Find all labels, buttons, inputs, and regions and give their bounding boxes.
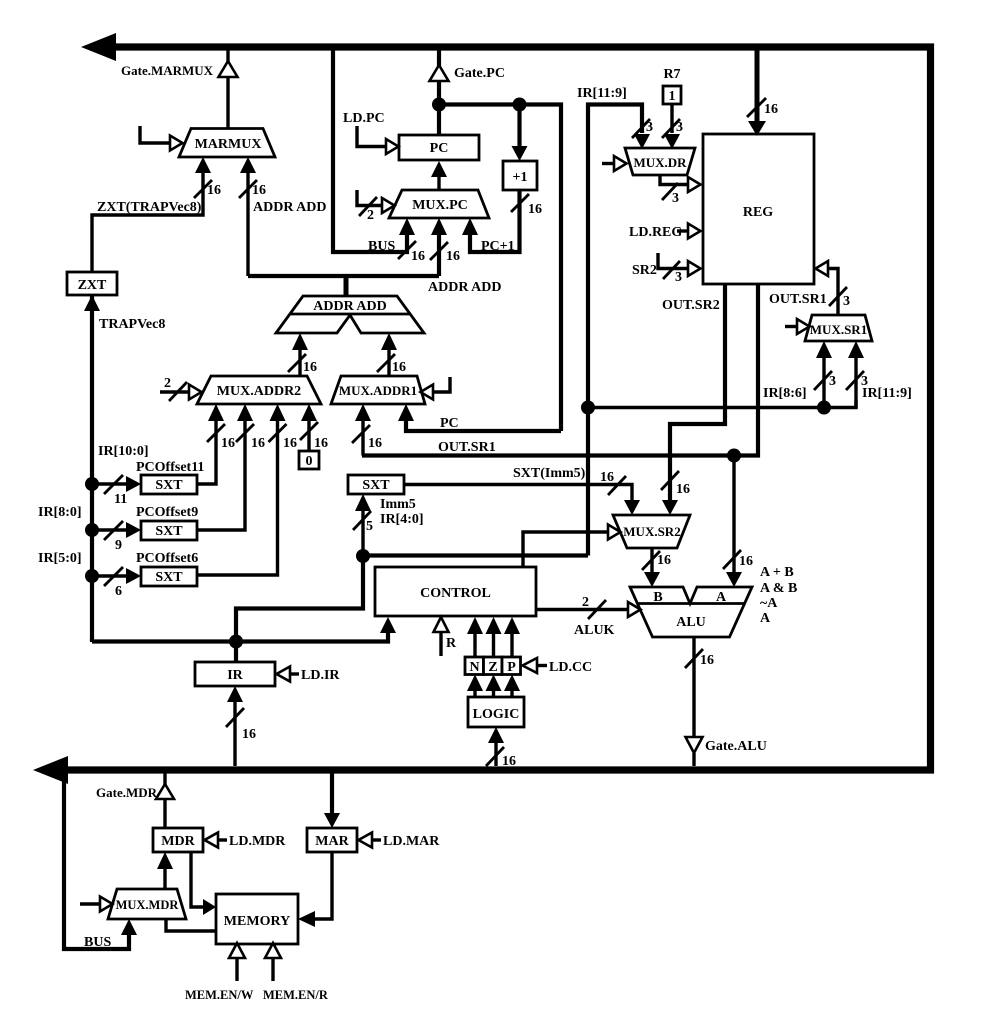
wire MARMUX select elbow bbox=[140, 126, 170, 143]
node junction at PC top bbox=[432, 98, 446, 112]
svg-text:IR[8:0]: IR[8:0] bbox=[38, 505, 82, 520]
svg-text:3: 3 bbox=[672, 191, 679, 206]
register ZXT bbox=[67, 272, 117, 295]
svg-text:LD.MDR: LD.MDR bbox=[229, 834, 286, 849]
wire SXT11 output into MUX.ADDR2 in1 bbox=[197, 420, 216, 484]
flag register P bbox=[502, 657, 521, 675]
wire IR fanout left vertical bbox=[90, 295, 94, 642]
input triangle MEM.EN/R bbox=[265, 943, 281, 958]
wire OUT.SR1 into ALU A bbox=[727, 449, 741, 463]
wire MUX.DR output into REG DR port bbox=[660, 175, 688, 185]
wire into +1 bbox=[517, 105, 521, 147]
svg-text:MUX.SR1: MUX.SR1 bbox=[810, 322, 867, 337]
wire Z into CONTROL bbox=[492, 633, 495, 657]
wire LOGIC to N bbox=[473, 691, 476, 697]
svg-text:LD.MAR: LD.MAR bbox=[383, 834, 440, 849]
svg-text:16: 16 bbox=[411, 249, 425, 264]
svg-text:3: 3 bbox=[646, 120, 653, 135]
svg-text:16: 16 bbox=[392, 360, 406, 375]
register SXT PCOffset9 bbox=[141, 521, 197, 540]
svg-text:LD.PC: LD.PC bbox=[343, 111, 385, 126]
svg-text:PCOffset9: PCOffset9 bbox=[136, 505, 198, 520]
svg-text:BUS: BUS bbox=[84, 935, 111, 950]
wire into SXT6 bbox=[92, 574, 126, 577]
svg-text:16: 16 bbox=[600, 470, 614, 485]
svg-text:16: 16 bbox=[242, 727, 256, 742]
wire SXT6 output into MUX.ADDR2 in3 bbox=[197, 420, 278, 575]
wire bus into IR bbox=[233, 702, 236, 766]
register SXT PCOffset6 bbox=[141, 567, 197, 586]
wire into SXT11 bbox=[92, 482, 126, 485]
svg-text:SXT: SXT bbox=[155, 570, 183, 585]
wire MUX.ADDR2 output into ADDR ADD bbox=[298, 349, 301, 376]
mux MUX.ADDR2 bbox=[197, 376, 321, 404]
svg-text:SXT(Imm5): SXT(Imm5) bbox=[513, 466, 586, 481]
svg-text:SXT: SXT bbox=[155, 478, 183, 493]
control unit CONTROL bbox=[375, 567, 536, 616]
wire MAR into MEMORY bbox=[315, 852, 332, 919]
svg-text:16: 16 bbox=[207, 183, 221, 198]
wire ALUK from CONTROL into ALU bbox=[536, 608, 628, 611]
select triangle MUX.ADDR1 bbox=[421, 385, 434, 400]
svg-text:OUT.SR1: OUT.SR1 bbox=[438, 440, 496, 455]
svg-text:11: 11 bbox=[114, 492, 127, 507]
svg-text:B: B bbox=[653, 590, 662, 605]
gate Gate.MARMUX triangle bbox=[219, 61, 238, 77]
wire MUX.ADDR1 output into ADDR ADD bbox=[387, 349, 390, 376]
svg-text:MARMUX: MARMUX bbox=[195, 137, 262, 152]
svg-text:16: 16 bbox=[303, 360, 317, 375]
wire MARMUX output bbox=[226, 77, 229, 130]
svg-text:16: 16 bbox=[739, 554, 753, 569]
node junction above +1 bbox=[513, 98, 527, 112]
svg-text:ALUK: ALUK bbox=[574, 623, 615, 638]
svg-text:BUS: BUS bbox=[368, 239, 395, 254]
register SXT Imm5 bbox=[348, 475, 404, 494]
wire TRAPVec8 into ZXT bbox=[90, 310, 93, 642]
load triangle LD.CC bbox=[523, 658, 538, 673]
wire N into CONTROL bbox=[473, 633, 476, 657]
svg-text:MUX.DR: MUX.DR bbox=[633, 155, 687, 170]
svg-text:5: 5 bbox=[366, 519, 373, 534]
svg-text:16: 16 bbox=[368, 436, 382, 451]
svg-text:A: A bbox=[716, 590, 727, 605]
constant box 0 bbox=[299, 451, 319, 469]
node junction IR[5:0] bbox=[85, 569, 99, 583]
svg-text:9: 9 bbox=[115, 538, 122, 553]
wire OUT.SR1 into MUX.ADDR1 left bbox=[361, 420, 364, 456]
svg-text:LOGIC: LOGIC bbox=[473, 707, 520, 722]
svg-text:IR[8:6]: IR[8:6] bbox=[763, 386, 807, 401]
svg-text:ZXT(TRAPVec8): ZXT(TRAPVec8) bbox=[97, 200, 202, 215]
wire Gate.MARMUX drop from bus bbox=[226, 50, 229, 62]
svg-text:PCOffset6: PCOffset6 bbox=[136, 551, 198, 566]
gate Gate.PC triangle bbox=[430, 65, 449, 81]
svg-text:ZXT: ZXT bbox=[78, 278, 107, 293]
wire MUX.MDR select stub bbox=[80, 902, 100, 905]
svg-text:~A: ~A bbox=[760, 596, 778, 611]
wire MUX.SR1 output into REG SR1 port bbox=[828, 269, 838, 316]
svg-text:PCOffset11: PCOffset11 bbox=[136, 460, 204, 475]
svg-text:ADDR ADD: ADDR ADD bbox=[313, 299, 387, 314]
mux MUX.PC bbox=[389, 190, 489, 218]
wire PC top to +1 and PC line bbox=[439, 105, 561, 432]
svg-text:LD.REG: LD.REG bbox=[629, 225, 682, 240]
wire MDR to MEMORY bbox=[191, 852, 203, 907]
flag register Z bbox=[484, 657, 503, 675]
wire IR bits horizontal to MUX.SR1 bbox=[588, 400, 856, 408]
svg-text:Gate.ALU: Gate.ALU bbox=[705, 739, 767, 754]
svg-text:IR[11:9]: IR[11:9] bbox=[577, 86, 627, 101]
svg-text:P: P bbox=[507, 660, 516, 675]
svg-text:16: 16 bbox=[676, 482, 690, 497]
input R triangle into CONTROL bbox=[434, 617, 449, 632]
load triangle LD.MAR bbox=[359, 833, 373, 848]
svg-text:ADDR ADD: ADDR ADD bbox=[253, 200, 327, 215]
mux MUX.DR bbox=[625, 148, 695, 175]
svg-text:SXT: SXT bbox=[155, 524, 183, 539]
register SXT PCOffset11 bbox=[141, 475, 197, 494]
node junction IR[8:0] bbox=[85, 523, 99, 537]
svg-text:OUT.SR1: OUT.SR1 bbox=[769, 292, 827, 307]
svg-text:16: 16 bbox=[700, 653, 714, 668]
svg-text:MEM.EN/W: MEM.EN/W bbox=[185, 988, 254, 1002]
svg-text:MUX.PC: MUX.PC bbox=[412, 198, 468, 213]
logic block LOGIC bbox=[468, 697, 524, 727]
svg-text:N: N bbox=[469, 660, 479, 675]
wire SXT(Imm5) into MUX.SR2 left bbox=[404, 485, 632, 501]
mux MARMUX bbox=[179, 129, 275, 158]
register MDR bbox=[153, 828, 203, 852]
svg-text:MEM.EN/R: MEM.EN/R bbox=[263, 988, 329, 1002]
wire MUX.MDR to MEMORY bbox=[166, 919, 216, 931]
svg-text:16: 16 bbox=[314, 436, 328, 451]
wire ZXT to MARMUX left input bbox=[92, 172, 203, 273]
wire MUX.DR select stub bbox=[602, 162, 614, 165]
svg-text:IR[10:0]: IR[10:0] bbox=[98, 444, 149, 459]
svg-text:REG: REG bbox=[743, 205, 773, 220]
wire bus into MAR bbox=[330, 773, 334, 813]
svg-text:16: 16 bbox=[221, 436, 235, 451]
wire MUX.SR2 select from CONTROL bbox=[523, 532, 608, 567]
svg-text:A & B: A & B bbox=[760, 581, 797, 596]
svg-text:MDR: MDR bbox=[161, 834, 195, 849]
wire IR output fanout bbox=[92, 633, 388, 642]
svg-text:PC: PC bbox=[430, 141, 449, 156]
wire LOGIC to Z bbox=[492, 691, 495, 697]
mux MUX.SR1 bbox=[805, 315, 872, 341]
wire MUX.ADDR1 select elbow bbox=[433, 377, 450, 392]
wire bus into REG top bbox=[755, 50, 760, 121]
svg-text:ALU: ALU bbox=[676, 615, 706, 630]
svg-text:16: 16 bbox=[764, 102, 778, 117]
svg-text:MEMORY: MEMORY bbox=[224, 914, 290, 929]
svg-text:ADDR ADD: ADDR ADD bbox=[428, 280, 502, 295]
wire IR[4:0] into SXT Imm5 bbox=[361, 510, 364, 556]
wire LOGIC to P bbox=[510, 691, 513, 697]
wire ADDR ADD output up to distribution line bbox=[344, 276, 349, 296]
svg-text:R: R bbox=[446, 636, 457, 651]
register file REG bbox=[703, 134, 814, 284]
mux MUX.SR2 bbox=[613, 515, 690, 548]
wire Gate.PC drop from bus bbox=[437, 50, 441, 66]
wire into SXT9 bbox=[92, 528, 126, 531]
wire gate to PC box bbox=[437, 81, 441, 135]
register PC bbox=[399, 135, 479, 160]
gate Gate.ALU triangle bbox=[686, 737, 703, 753]
svg-text:A: A bbox=[760, 611, 771, 626]
BUS (top, right, bottom thick system bus) bbox=[33, 33, 931, 784]
wire MUX.PC select elbow bbox=[357, 190, 382, 206]
svg-text:PC+1: PC+1 bbox=[481, 239, 515, 254]
svg-text:CONTROL: CONTROL bbox=[420, 586, 491, 601]
wire constant 0 into MUX.ADDR2 in4 bbox=[307, 420, 310, 451]
svg-text:LD.IR: LD.IR bbox=[301, 668, 340, 683]
mux MUX.MDR bbox=[108, 889, 186, 919]
select triangle MARMUX bbox=[170, 136, 183, 151]
wire OUT.SR2 from REG bottom to MUX.SR2 bbox=[670, 284, 725, 500]
wire BUS into MUX.MDR bbox=[64, 773, 129, 949]
svg-text:IR: IR bbox=[227, 668, 243, 683]
svg-text:16: 16 bbox=[283, 436, 297, 451]
wire IR[11:9] into MUX.SR1 right bbox=[854, 357, 857, 408]
adder +1 bbox=[503, 161, 537, 190]
wire gate to MDR bbox=[163, 799, 166, 828]
svg-text:Gate.MARMUX: Gate.MARMUX bbox=[121, 63, 214, 78]
load triangle LD.MDR bbox=[205, 833, 219, 848]
svg-text:3: 3 bbox=[843, 294, 850, 309]
wire PC into MUX.ADDR1 right bbox=[406, 420, 561, 431]
svg-text:16: 16 bbox=[251, 436, 265, 451]
wire IR[8:6] into MUX.SR1 left bbox=[822, 357, 825, 408]
load triangle PC bbox=[386, 139, 399, 154]
wire MUX.ADDR2 select bbox=[160, 390, 189, 393]
wire bus into LOGIC bbox=[494, 743, 497, 766]
wire MUX.SR2 output into ALU B bbox=[650, 548, 653, 572]
wire MUX.PC output into PC bbox=[437, 176, 440, 190]
wire OUT.SR1 horizontal bbox=[362, 285, 758, 456]
svg-text:16: 16 bbox=[252, 183, 266, 198]
svg-text:6: 6 bbox=[115, 584, 122, 599]
svg-text:MAR: MAR bbox=[315, 834, 349, 849]
svg-text:SXT: SXT bbox=[362, 478, 390, 493]
wire R7 into MUX.DR right bbox=[670, 104, 673, 133]
wire ALU output to Gate.ALU bbox=[692, 637, 695, 737]
load triangle LD.IR bbox=[277, 667, 291, 682]
svg-text:OUT.SR2: OUT.SR2 bbox=[662, 298, 720, 313]
memory MEMORY bbox=[216, 894, 298, 944]
svg-text:A + B: A + B bbox=[760, 565, 794, 580]
svg-text:1: 1 bbox=[669, 89, 676, 104]
wire BUS drop into MUX.PC bbox=[333, 50, 407, 252]
svg-text:Imm5: Imm5 bbox=[380, 497, 416, 512]
svg-text:2: 2 bbox=[164, 376, 171, 391]
wire LD.PC elbow bbox=[357, 126, 386, 147]
gate Gate.MDR triangle bbox=[163, 773, 166, 785]
svg-text:2: 2 bbox=[367, 208, 374, 223]
flag register N bbox=[465, 657, 484, 675]
wire +1 output PC+1 into MUX.PC bbox=[470, 190, 520, 252]
register MAR bbox=[307, 828, 357, 852]
svg-text:Gate.MDR: Gate.MDR bbox=[96, 785, 158, 800]
svg-text:2: 2 bbox=[582, 595, 589, 610]
wire MUX.MDR output into MDR bbox=[163, 869, 166, 889]
svg-text:16: 16 bbox=[446, 249, 460, 264]
wire IR[11:9] into MUX.DR left bbox=[588, 105, 642, 556]
instruction register IR bbox=[195, 662, 275, 686]
svg-text:Z: Z bbox=[488, 660, 497, 675]
svg-text:MUX.SR2: MUX.SR2 bbox=[623, 524, 680, 539]
svg-text:16: 16 bbox=[657, 553, 671, 568]
svg-text:PC: PC bbox=[440, 416, 459, 431]
svg-text:MUX.ADDR1: MUX.ADDR1 bbox=[339, 383, 417, 398]
svg-text:IR[11:9]: IR[11:9] bbox=[862, 386, 912, 401]
node junction IR[10:0] bbox=[85, 477, 99, 491]
svg-text:IR[5:0]: IR[5:0] bbox=[38, 551, 82, 566]
svg-text:16: 16 bbox=[502, 754, 516, 769]
svg-text:16: 16 bbox=[528, 202, 542, 217]
wire ADDR ADD to MARMUX right input bbox=[246, 172, 249, 276]
mux MUX.ADDR1 bbox=[331, 376, 425, 404]
wire MUX.SR1 select stub bbox=[785, 325, 797, 328]
svg-text:+1: +1 bbox=[513, 170, 528, 185]
svg-text:MUX.MDR: MUX.MDR bbox=[116, 898, 180, 912]
svg-text:R7: R7 bbox=[663, 67, 680, 82]
svg-text:TRAPVec8: TRAPVec8 bbox=[99, 317, 165, 332]
svg-text:IR[4:0]: IR[4:0] bbox=[380, 512, 424, 527]
wire SXT9 output into MUX.ADDR2 in2 bbox=[197, 420, 245, 530]
svg-text:3: 3 bbox=[829, 374, 836, 389]
wire ADDR ADD into MUX.PC middle bbox=[437, 234, 441, 276]
svg-text:3: 3 bbox=[675, 270, 682, 285]
select triangle MUX.ADDR2 bbox=[189, 385, 202, 400]
svg-text:3: 3 bbox=[676, 120, 683, 135]
svg-text:0: 0 bbox=[306, 454, 313, 469]
input triangle MEM.EN/W bbox=[229, 943, 245, 958]
svg-text:SR2: SR2 bbox=[632, 263, 657, 278]
select triangle MUX.PC bbox=[382, 198, 395, 213]
svg-text:LD.CC: LD.CC bbox=[549, 660, 592, 675]
svg-text:MUX.ADDR2: MUX.ADDR2 bbox=[217, 384, 301, 399]
alu ALU bbox=[630, 587, 752, 637]
wire P into CONTROL bbox=[510, 633, 513, 657]
adder ADDR ADD bbox=[276, 296, 424, 333]
svg-text:Gate.PC: Gate.PC bbox=[454, 66, 505, 81]
